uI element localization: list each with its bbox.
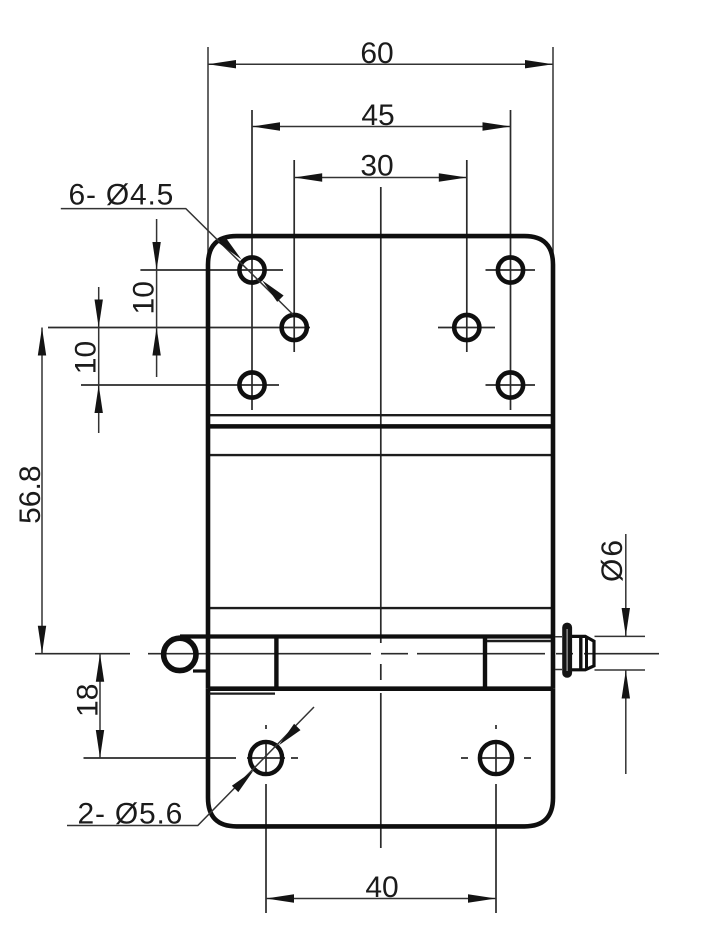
svg-text:60: 60 — [360, 37, 393, 70]
svg-text:56.8: 56.8 — [14, 466, 47, 524]
svg-text:2- Ø5.6: 2- Ø5.6 — [78, 798, 184, 831]
svg-text:40: 40 — [365, 871, 398, 904]
svg-text:6- Ø4.5: 6- Ø4.5 — [69, 178, 175, 211]
svg-text:30: 30 — [360, 150, 393, 183]
svg-text:10: 10 — [70, 341, 103, 374]
svg-text:10: 10 — [127, 281, 160, 314]
svg-text:18: 18 — [71, 684, 104, 717]
svg-text:Ø6: Ø6 — [596, 538, 629, 582]
svg-text:45: 45 — [361, 99, 394, 132]
